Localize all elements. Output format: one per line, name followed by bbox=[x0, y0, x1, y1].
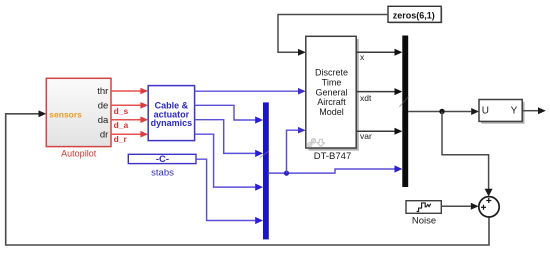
wire feedback loop from Sum output to Autopilot input bbox=[6, 110, 489, 245]
svg-text:dr: dr bbox=[100, 129, 108, 140]
wire Cable out1 to Aircraft model in2 bbox=[195, 88, 306, 95]
subsystem Cable & actuator dynamics bbox=[148, 86, 194, 141]
wire Aircraft var to Mux2 in3 bbox=[356, 128, 402, 135]
Mux1 blue bar bbox=[263, 102, 269, 239]
wire zeros(6,1) to Aircraft model in1 bbox=[278, 15, 388, 56]
svg-text:var: var bbox=[360, 131, 372, 141]
wire Noise to Sum left input bbox=[441, 203, 478, 210]
svg-text:Autopilot: Autopilot bbox=[61, 149, 97, 159]
constant block zeros(6,1) bbox=[388, 6, 443, 23]
model block Discrete Time General Aircraft Model bbox=[306, 36, 372, 150]
wire Aircraft x to Mux2 in1 bbox=[356, 49, 402, 56]
svg-text:da: da bbox=[98, 115, 109, 126]
block U Y bbox=[479, 100, 525, 124]
wire UY output bbox=[523, 107, 546, 114]
svg-text:Discrete: Discrete bbox=[315, 68, 348, 78]
svg-text:dynamics: dynamics bbox=[151, 118, 193, 128]
block Noise bbox=[406, 201, 441, 214]
wire Cable out4 to Mux1 in3 bbox=[195, 134, 263, 191]
badge down arrow icon bbox=[317, 139, 324, 147]
wire stabs to Mux1 in4 bbox=[196, 159, 263, 224]
svg-text:Aircraft: Aircraft bbox=[317, 97, 346, 107]
wire da: Autopilot out3 to Cable in3 bbox=[111, 116, 148, 123]
junction on Mux1 output bbox=[284, 171, 289, 176]
svg-text:Time: Time bbox=[322, 77, 342, 87]
svg-text:d_a: d_a bbox=[114, 120, 129, 130]
wire thr: Autopilot out1 to Cable in1 bbox=[111, 88, 148, 95]
svg-text:Model: Model bbox=[319, 107, 344, 117]
wire Aircraft xdt to Mux2 in2 bbox=[356, 88, 402, 95]
svg-text:de: de bbox=[98, 100, 109, 111]
svg-text:d_r: d_r bbox=[114, 134, 128, 144]
tick on Mux2 bbox=[399, 97, 408, 107]
wire Cable out3 to Mux1 in2 bbox=[195, 120, 263, 157]
svg-text:stabs: stabs bbox=[151, 167, 174, 178]
svg-text:U: U bbox=[482, 105, 489, 116]
tick on Mux1 bbox=[260, 151, 270, 158]
svg-text:Noise: Noise bbox=[412, 215, 436, 226]
wire Cable out2 to Mux1 in1 bbox=[195, 105, 263, 123]
svg-text:General: General bbox=[315, 87, 347, 97]
junction on Mux2 output bbox=[439, 109, 444, 114]
wire Mux2 output to UY block bbox=[408, 108, 479, 115]
svg-text:xdt: xdt bbox=[360, 93, 372, 103]
Mux2 black bar bbox=[402, 36, 408, 188]
badge link icon bbox=[308, 139, 316, 147]
svg-text:Y: Y bbox=[511, 105, 518, 116]
wire de: Autopilot out2 to Cable in2 bbox=[111, 102, 148, 109]
wire dr: Autopilot out4 to Cable in4 bbox=[111, 131, 148, 138]
svg-text:zeros(6,1): zeros(6,1) bbox=[393, 10, 435, 20]
svg-text:d_s: d_s bbox=[114, 106, 129, 116]
sum block bbox=[479, 197, 499, 217]
constant block stabs (-C-) bbox=[128, 154, 196, 165]
subsystem Autopilot bbox=[46, 78, 111, 146]
wire junction down to Sum top input bbox=[442, 112, 493, 197]
svg-text:-C-: -C- bbox=[156, 154, 169, 165]
svg-text:thr: thr bbox=[97, 86, 108, 97]
svg-text:DT-B747: DT-B747 bbox=[314, 151, 352, 162]
wire Mux1 output to Mux2 in4 bbox=[269, 165, 403, 173]
svg-text:sensors: sensors bbox=[49, 109, 82, 119]
wire junction to Aircraft model in3 bbox=[287, 127, 306, 173]
